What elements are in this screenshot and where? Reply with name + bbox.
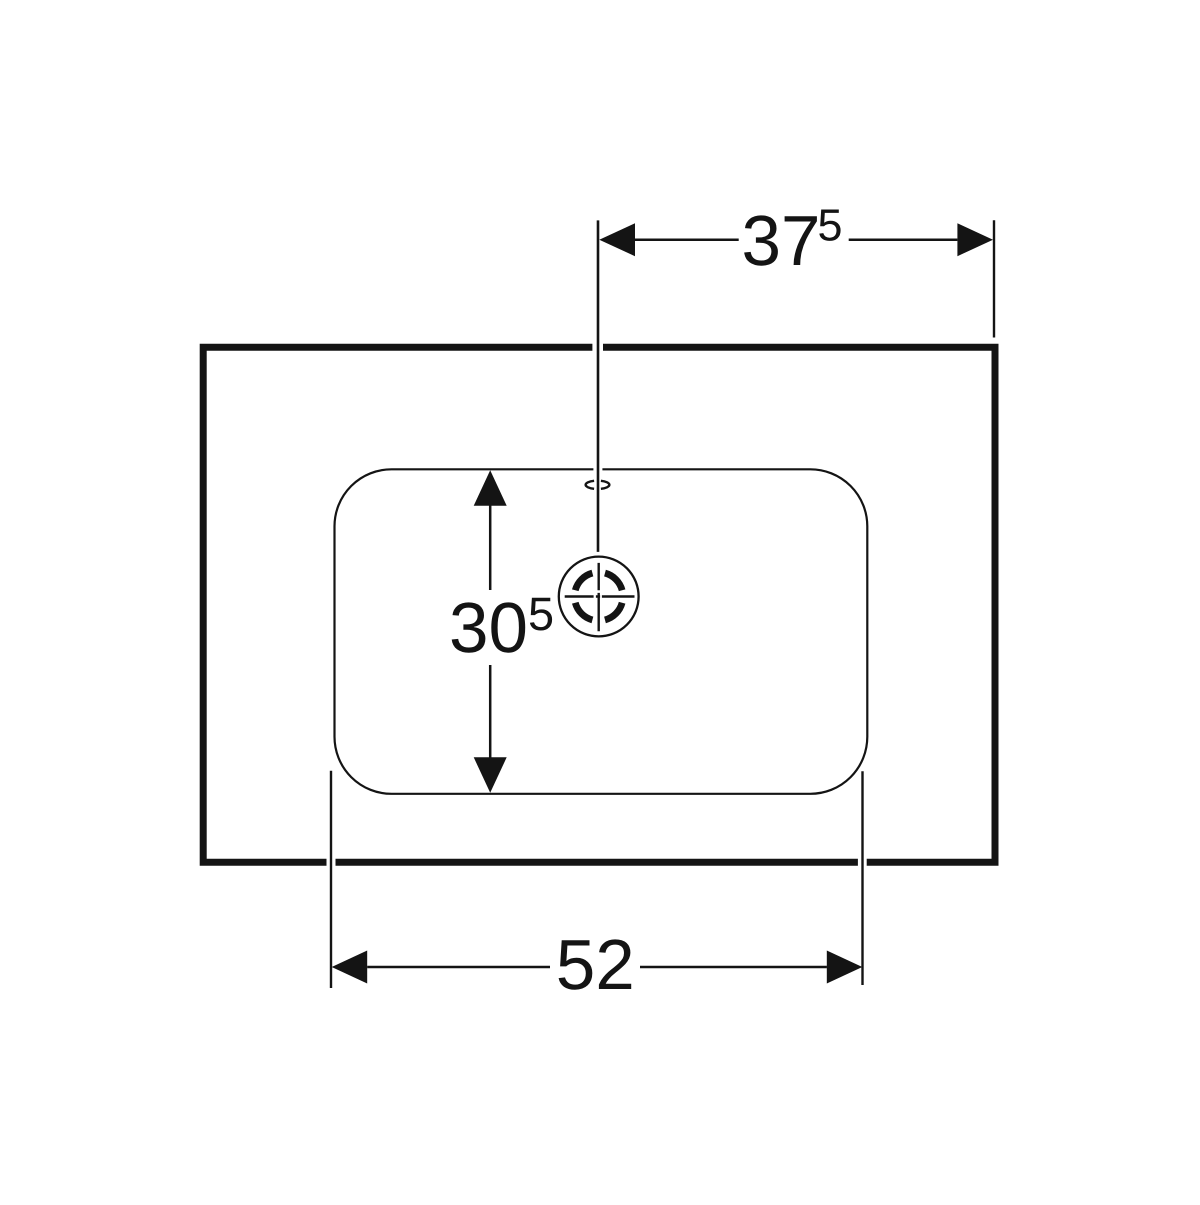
drain outer circle — [559, 557, 639, 637]
arrowhead 30.5 up — [474, 470, 507, 506]
arrowhead 37.5 right — [957, 223, 993, 256]
centreline / left extension line of 37.5 dimension — [597, 220, 600, 552]
label 52 — [559, 939, 632, 989]
label 37.5 — [744, 210, 840, 266]
arrowhead 37.5 left — [599, 223, 635, 256]
right extension line of 52 dimension — [861, 771, 863, 985]
basin rounded rectangle (gap in top edge at centerline) — [335, 469, 868, 794]
right extension line of 37.5 dimension — [993, 220, 995, 337]
drain thick ring arcs — [575, 573, 622, 620]
arrowhead 30.5 down — [474, 757, 507, 793]
dimension line 52 shaft — [367, 966, 827, 969]
arrowhead 52 right — [827, 951, 863, 984]
label 30.5 — [452, 598, 552, 653]
dimension line 37.5 shaft — [635, 238, 957, 241]
left extension line of 52 dimension — [330, 771, 332, 988]
overflow slot (ellipse arcs with gaps top and bottom) — [586, 481, 610, 489]
countertop outline (thick rectangle with gaps for crossing extension lines) — [203, 347, 995, 862]
drain crosshair centre mark — [565, 563, 635, 631]
arrowhead 52 left — [332, 951, 368, 984]
dimension line 30.5 shaft (vertical inside basin) — [489, 505, 492, 758]
